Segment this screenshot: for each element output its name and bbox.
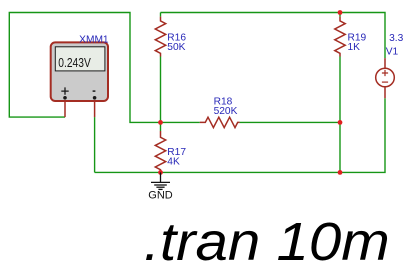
svg-text:4K: 4K <box>167 157 180 168</box>
svg-text:.tran 10m: .tran 10m <box>144 212 390 272</box>
svg-text:V1: V1 <box>386 47 399 58</box>
svg-text:1K: 1K <box>348 42 361 53</box>
svg-text:GND: GND <box>148 190 173 202</box>
svg-text:3.3: 3.3 <box>389 33 403 44</box>
svg-text:0.243V: 0.243V <box>58 55 91 70</box>
svg-text:XMM1: XMM1 <box>79 34 109 45</box>
svg-text:520K: 520K <box>214 106 238 117</box>
svg-text:50K: 50K <box>167 42 185 53</box>
